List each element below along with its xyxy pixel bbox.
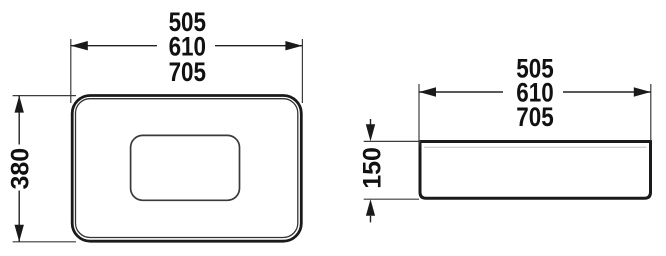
depth dimension 380: arrowhead down — [15, 225, 24, 242]
width dimension, side view: arrowhead left — [419, 87, 436, 96]
width dimension, left view: arrowhead left — [71, 41, 88, 50]
depth dimension 380: extension line bottom — [13, 241, 76, 243]
basin inner rim edge line — [76, 99, 298, 238]
width dimension, side view: dimension line right segment — [563, 91, 651, 93]
height dimension 150: extension line top — [364, 140, 421, 142]
faint rim edge line in side view — [424, 146, 647, 148]
basin side profile outline — [420, 142, 651, 199]
height dimension 150: upper arrow stem — [370, 119, 372, 125]
depth dimension 380: arrowhead up — [15, 96, 24, 113]
svg-text:705: 705 — [516, 102, 554, 133]
width dimension, left view: arrowhead right — [285, 41, 302, 50]
width dimension, left view: extension line right — [301, 39, 303, 103]
basin bowl outline — [131, 135, 240, 200]
width dimension, left view: dimension line left segment — [71, 45, 157, 47]
width dimension, side view: extension line right — [650, 84, 652, 141]
height dimension 150: arrowhead up (below shape) — [366, 199, 375, 216]
svg-text:380: 380 — [7, 148, 35, 190]
svg-text:150: 150 — [359, 147, 387, 189]
basin outer rim outline — [72, 96, 301, 242]
width dimension, left view: extension line left — [70, 39, 72, 103]
depth dimension 380: dimension line lower segment — [18, 191, 20, 242]
width dimension, side view: arrowhead right — [634, 87, 651, 96]
svg-text:705: 705 — [169, 57, 207, 88]
height dimension 150: arrowhead down (above shape) — [366, 124, 375, 141]
height dimension 150: lower arrow stem — [370, 216, 372, 223]
depth dimension 380: extension line top — [13, 95, 76, 97]
depth dimension 380: dimension line upper segment — [18, 96, 20, 145]
height dimension 150: extension line bottom — [364, 198, 419, 200]
width dimension, side view: extension line left — [418, 84, 420, 146]
width dimension, side view: dimension line left segment — [419, 91, 503, 93]
width dimension, left view: dimension line right segment — [215, 45, 302, 47]
